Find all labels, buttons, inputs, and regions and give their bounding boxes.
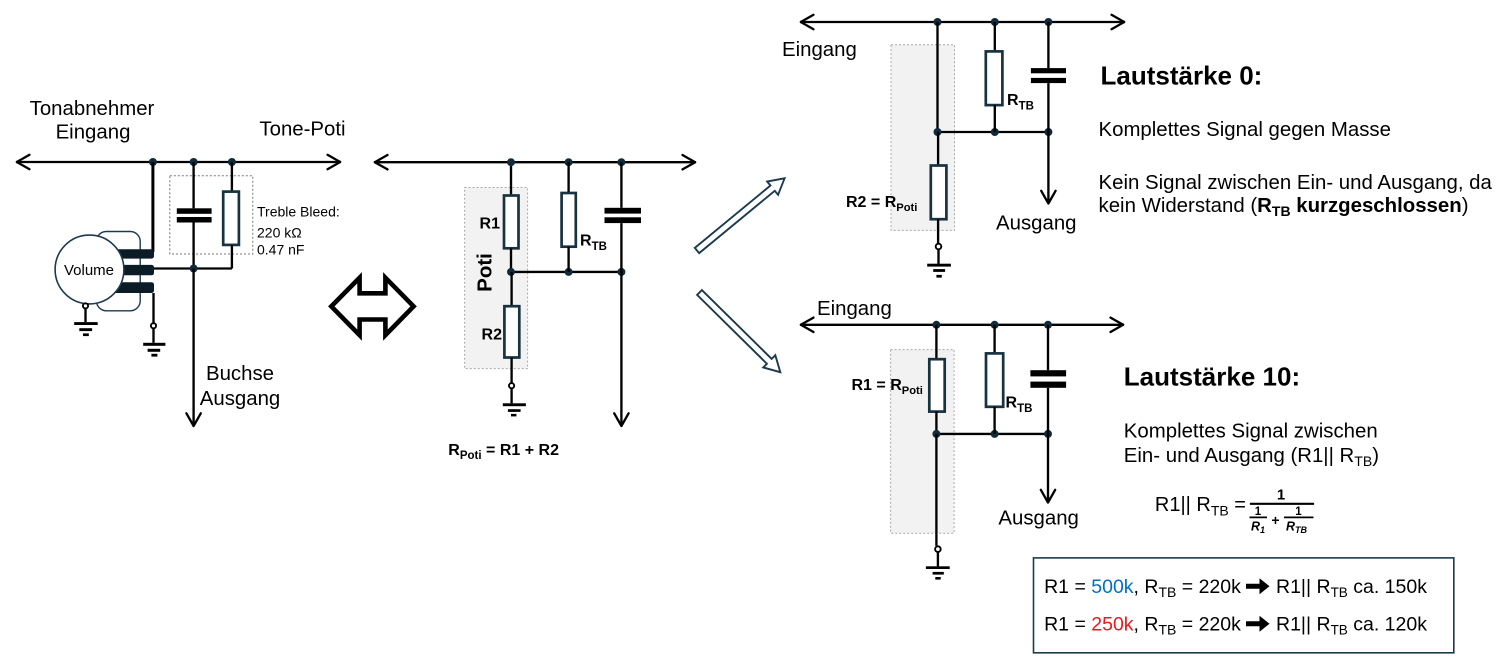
svg-text:R1: R1 bbox=[1251, 520, 1265, 536]
svg-text:1: 1 bbox=[1255, 506, 1262, 518]
resistor R1 = RPoti bbox=[929, 359, 944, 411]
poti shaded box top-right bbox=[891, 45, 955, 231]
node output junction bbox=[190, 265, 198, 273]
node wiper junction RTB bbox=[565, 268, 573, 276]
svg-text:Kein Signal zwischen Ein- und: Kein Signal zwischen Ein- und Ausgang, d… bbox=[1099, 172, 1493, 194]
pot body rounded rect bbox=[96, 232, 140, 311]
svg-text:R1 = 250k, RTB = 220k: R1 = 250k, RTB = 220k bbox=[1044, 614, 1241, 638]
label R1 bbox=[480, 216, 501, 233]
label RTB top-right bbox=[1007, 92, 1034, 113]
node bus-left junction 2 bbox=[190, 158, 198, 166]
wire wiper to resistor R2 bbox=[510, 272, 512, 306]
heading Lautstaerke 10 bbox=[1124, 362, 1300, 392]
resistor R1 bbox=[504, 196, 519, 249]
svg-text:R1|| RTB ca. 150k: R1|| RTB ca. 150k bbox=[1276, 576, 1427, 600]
resistor RTB middle bbox=[562, 193, 576, 247]
equivalence double arrow bbox=[331, 278, 413, 335]
node bus junction cap bbox=[1044, 18, 1052, 26]
svg-text:RTB: RTB bbox=[1007, 92, 1034, 113]
svg-text:220 kΩ: 220 kΩ bbox=[257, 224, 302, 240]
wire bus top-right rail bbox=[800, 15, 1125, 29]
wire bus to resistor R-TB1 bbox=[231, 162, 233, 192]
resistor treble bleed 220k bbox=[223, 192, 239, 245]
svg-text:R1 = 500k, RTB = 220k: R1 = 500k, RTB = 220k bbox=[1044, 576, 1241, 600]
wire R1 to wiper rail bbox=[935, 412, 937, 434]
ground lug3 bbox=[143, 328, 165, 356]
svg-text:Komplettes Signal gegen Masse: Komplettes Signal gegen Masse bbox=[1099, 119, 1391, 141]
wire bus to resistor RTB top-right bbox=[994, 22, 996, 51]
svg-text:Treble Bleed:: Treble Bleed: bbox=[257, 204, 340, 220]
svg-text:Lautstärke 0:: Lautstärke 0: bbox=[1101, 61, 1263, 91]
wire bus to wiper node bbox=[936, 22, 938, 132]
node wiper junction cap bbox=[617, 268, 625, 276]
svg-text:Tone-Poti: Tone-Poti bbox=[259, 118, 345, 140]
svg-text:Eingang: Eingang bbox=[782, 39, 857, 61]
label Tone-Poti bbox=[259, 118, 345, 140]
svg-text:1: 1 bbox=[1295, 506, 1302, 518]
wire wiper rail bottom-right bbox=[936, 433, 1048, 435]
svg-text:R1|| RTB =: R1|| RTB = bbox=[1155, 494, 1246, 519]
poti shaded box bottom-right bbox=[891, 350, 955, 534]
wire bus middle rail bbox=[374, 155, 696, 169]
wire wiper rail bbox=[511, 271, 621, 273]
wire resistor bottom to output node bbox=[231, 245, 233, 269]
pot lug 2 wiper bbox=[111, 265, 154, 275]
node bus-left junction 1 bbox=[149, 158, 157, 166]
svg-text:R1: R1 bbox=[480, 216, 501, 233]
svg-text:kein Widerstand (RTB kurzgesch: kein Widerstand (RTB kurzgeschlossen) bbox=[1099, 195, 1469, 219]
capacitor top-right bbox=[1031, 68, 1066, 83]
wire wiper rail top-right bbox=[938, 131, 1049, 133]
svg-text:RTB: RTB bbox=[580, 233, 607, 254]
results line 1 bbox=[1044, 576, 1427, 600]
wire R1 bottom to wiper node bbox=[510, 248, 512, 272]
wire bus to capacitor middle bbox=[620, 162, 622, 208]
node bus junction pot bbox=[932, 321, 940, 329]
label Poti rotated bbox=[473, 253, 496, 292]
svg-text:Poti: Poti bbox=[473, 253, 496, 292]
formula R1 parallel RTB bbox=[1155, 487, 1314, 536]
node wiper junction pot bbox=[932, 430, 940, 438]
svg-text:RTB: RTB bbox=[1006, 395, 1033, 416]
wire RTB bottom to wiper rail bbox=[567, 247, 569, 272]
pot circle Volume bbox=[55, 235, 124, 304]
svg-text:Tonabnehmer: Tonabnehmer bbox=[30, 98, 155, 120]
label R1 = RPoti bbox=[852, 377, 923, 397]
resistor R2 = RPoti bbox=[931, 166, 947, 220]
label RTB bottom-right bbox=[1006, 395, 1033, 416]
svg-text:R2: R2 bbox=[482, 327, 503, 344]
svg-text:0.47 nF: 0.47 nF bbox=[257, 241, 304, 257]
poti shaded box bbox=[465, 188, 528, 369]
label Tonabnehmer Eingang bbox=[30, 98, 155, 144]
label RTB middle bbox=[580, 233, 607, 254]
ground R2 bbox=[503, 388, 526, 416]
svg-text:RPoti = R1 + R2: RPoti = R1 + R2 bbox=[448, 442, 559, 462]
node wiper junction cap bbox=[1044, 430, 1052, 438]
wire middle lug to resistor branch bbox=[154, 267, 232, 269]
svg-text:RTB: RTB bbox=[1286, 520, 1308, 536]
node wiper junction RTB bbox=[991, 430, 999, 438]
node bus junction RTB bbox=[991, 321, 999, 329]
label Ausgang bottom-right bbox=[998, 508, 1079, 530]
node wiper junction pot bbox=[934, 128, 942, 136]
wire R2 bottom to ground pin bbox=[510, 358, 512, 384]
label Eingang bottom-right bbox=[817, 298, 892, 320]
bottom ground pin bbox=[935, 546, 941, 552]
node wiper junction R1R2 bbox=[507, 268, 515, 276]
results line 2 bbox=[1044, 614, 1427, 638]
svg-text:Eingang: Eingang bbox=[56, 122, 131, 144]
R2 ground pin bbox=[936, 244, 942, 250]
node bus junction RTB bbox=[991, 18, 999, 26]
svg-text:Volume: Volume bbox=[64, 262, 114, 279]
wire capacitor to Ausgang arrow bbox=[1041, 388, 1055, 503]
wire output to jack with arrow bbox=[186, 269, 200, 427]
label Buchse Ausgang bbox=[200, 363, 281, 410]
text Kein Signal zwischen bbox=[1099, 172, 1493, 219]
svg-text:Ausgang: Ausgang bbox=[200, 388, 281, 410]
wire bus to resistor RTB bottom-right bbox=[993, 325, 995, 354]
svg-text:Buchse: Buchse bbox=[206, 363, 274, 385]
svg-text:Komplettes Signal zwischen: Komplettes Signal zwischen bbox=[1124, 420, 1378, 442]
wire bus to capacitor top-right bbox=[1047, 22, 1049, 68]
wire capacitor C1 to output node bbox=[192, 223, 194, 269]
capacitor bottom-right bbox=[1030, 370, 1066, 388]
label R2 bbox=[482, 327, 503, 344]
node wiper junction RTB bbox=[991, 128, 999, 136]
svg-text:Ausgang: Ausgang bbox=[996, 213, 1077, 235]
text Komplettes Signal gegen Masse bbox=[1099, 119, 1391, 141]
lug3 ground pin bbox=[151, 323, 156, 328]
arrow to Lautstaerke 0 bbox=[692, 172, 791, 257]
label Treble Bleed values bbox=[257, 204, 340, 258]
results box bbox=[1034, 558, 1454, 653]
node bus-left junction 3 bbox=[228, 158, 236, 166]
wire RTB to wiper rail bbox=[994, 105, 996, 132]
resistor R2 bbox=[504, 306, 519, 357]
wire lug3 to ground pin bbox=[152, 293, 154, 323]
wire bus to resistor R1 bbox=[935, 325, 937, 359]
capacitor middle bbox=[605, 208, 642, 223]
wire capacitor to Ausgang arrow bbox=[1041, 83, 1055, 203]
wire capacitor to output arrow bbox=[614, 223, 628, 426]
wire bus to resistor RTB bbox=[567, 162, 569, 193]
label Ausgang top-right bbox=[996, 213, 1077, 235]
wire bus bottom-right rail bbox=[800, 318, 1124, 332]
wire bus to resistor R1 bbox=[510, 162, 512, 195]
wire RTB to wiper rail bbox=[993, 407, 995, 434]
svg-text:Ein- und Ausgang (R1|| RTB): Ein- und Ausgang (R1|| RTB) bbox=[1124, 445, 1379, 469]
arrow to Lautstaerke 10 bbox=[693, 286, 786, 378]
svg-text:1: 1 bbox=[1277, 487, 1285, 504]
svg-text:Eingang: Eingang bbox=[817, 298, 892, 320]
wire wiper to resistor R2 bbox=[937, 132, 939, 166]
pot lug 1 bbox=[111, 249, 154, 258]
ground pot case bbox=[74, 309, 98, 337]
wire bus to capacitor bottom-right bbox=[1047, 325, 1049, 370]
heading Lautstaerke 0 bbox=[1101, 61, 1263, 91]
node wiper junction cap bbox=[1044, 128, 1052, 136]
wire bus to capacitor C1 bbox=[192, 162, 194, 208]
svg-text:+: + bbox=[1271, 512, 1279, 528]
treble-bleed dashed box bbox=[170, 176, 253, 254]
wire bus to top lug bbox=[151, 162, 154, 252]
wire bus left (Tonabnehmer/Tone-Poti rail) bbox=[16, 155, 341, 169]
wire wiper to ground pin bbox=[935, 434, 937, 546]
node bus junction cap bbox=[1044, 321, 1052, 329]
node bus junction pot bbox=[934, 18, 942, 26]
text Komplettes Signal zwischen bbox=[1124, 420, 1379, 469]
resistor RTB top-right bbox=[986, 51, 1003, 105]
ground top-right bbox=[927, 249, 951, 277]
label RPoti = R1 + R2 bbox=[448, 442, 559, 462]
R2 ground pin bbox=[509, 383, 514, 388]
pot case ground pin bbox=[83, 303, 88, 308]
pot lug 3 bbox=[111, 282, 154, 293]
node bus junction RTB bbox=[565, 158, 573, 166]
svg-text:R1|| RTB ca. 120k: R1|| RTB ca. 120k bbox=[1276, 614, 1427, 638]
label R2 = RPoti bbox=[846, 194, 917, 214]
wire R2 to ground pin bbox=[937, 219, 939, 243]
svg-text:Lautstärke 10:: Lautstärke 10: bbox=[1124, 362, 1300, 392]
node bus junction R1 bbox=[507, 158, 515, 166]
resistor RTB bottom-right bbox=[986, 353, 1003, 406]
ground bottom-right bbox=[926, 552, 950, 580]
svg-text:Ausgang: Ausgang bbox=[998, 508, 1079, 530]
node bus junction cap bbox=[617, 158, 625, 166]
label Eingang top-right bbox=[782, 39, 857, 61]
capacitor C1 (treble bleed 0.47 nF) bbox=[177, 208, 212, 222]
